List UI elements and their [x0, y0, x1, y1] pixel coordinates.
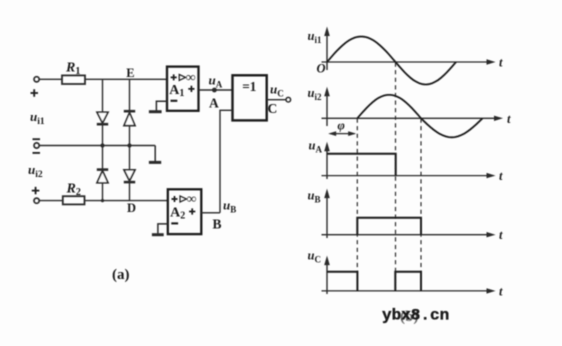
wire terminal to R1	[39, 78, 62, 80]
ui2 sine wave	[357, 95, 482, 137]
junction dot bottom rail	[101, 199, 104, 202]
dashed guide line at t3 (ui2 zero-fall)	[420, 119, 422, 292]
svg-text:uB: uB	[308, 189, 321, 205]
uA axis vertical	[324, 142, 330, 179]
label C	[268, 101, 278, 116]
ground stem from middle wire	[154, 146, 156, 162]
uB axis horizontal	[322, 232, 496, 237]
svg-text:E: E	[126, 66, 134, 80]
label ui1	[30, 109, 45, 127]
svg-text:O: O	[317, 61, 326, 75]
label uB	[308, 189, 321, 205]
label ui2	[308, 86, 322, 102]
svg-text:B: B	[213, 217, 222, 232]
wire branch 1 upper (x=102.5)	[102, 79, 104, 145]
node A dot	[212, 88, 217, 93]
svg-text:∞: ∞	[186, 69, 196, 84]
op-amp A2 internals	[170, 191, 197, 224]
uB axis vertical	[324, 189, 330, 238]
svg-text:A2: A2	[170, 205, 185, 221]
label B	[213, 217, 222, 232]
label t row1	[499, 56, 503, 70]
caption (b) faint under watermark	[400, 309, 418, 325]
wire B riser to XOR second input	[220, 110, 233, 213]
svg-text:=1: =1	[242, 79, 256, 94]
minus sign above middle terminal	[33, 138, 41, 140]
plus sign lower input	[32, 187, 40, 194]
ground wire from A1 minus input	[156, 101, 167, 110]
label O origin	[317, 61, 326, 75]
label ui1	[308, 29, 322, 45]
ui1 axis vertical	[324, 27, 330, 71]
svg-text:R1: R1	[65, 61, 80, 78]
resistor R1	[62, 75, 85, 84]
svg-text:t: t	[499, 284, 503, 298]
diode D4 (anode top, points down)	[124, 170, 135, 182]
wire terminal to R2	[39, 200, 63, 202]
svg-text:φ: φ	[338, 119, 345, 133]
diode D3 (points up, cathode top)	[97, 170, 108, 183]
svg-text:C: C	[268, 101, 278, 116]
label uB	[223, 198, 236, 215]
ground bar (A1)	[149, 110, 162, 113]
svg-text:uC: uC	[270, 82, 284, 99]
ui2 axis horizontal	[322, 116, 504, 121]
wire branch 2 lower	[129, 146, 131, 201]
XOR =1 label	[242, 79, 256, 94]
minus sign below middle terminal	[33, 152, 41, 154]
svg-text:R2: R2	[66, 182, 81, 199]
op-amp A1 box	[167, 67, 199, 111]
wire branch 2 upper (x=129.5)	[129, 79, 131, 145]
uB square wave	[357, 218, 421, 235]
svg-text:ui2: ui2	[28, 162, 43, 180]
svg-text:ui1: ui1	[30, 109, 45, 127]
uC pulse 1	[327, 272, 357, 291]
svg-text:uA: uA	[309, 139, 323, 155]
dashed guide line at t1 (ui2 zero-rise)	[356, 119, 358, 292]
uC pulse 2	[395, 272, 421, 291]
ui2 axis vertical	[324, 87, 330, 126]
middle wire	[39, 145, 155, 147]
terminal uC	[286, 97, 291, 102]
terminal common (middle)	[34, 143, 39, 148]
svg-text:(a): (a)	[112, 267, 130, 283]
uA axis horizontal	[322, 173, 496, 178]
uA square wave	[327, 154, 396, 176]
svg-text:∞: ∞	[187, 191, 197, 206]
svg-text:t: t	[499, 228, 503, 242]
terminal ui2	[34, 198, 39, 203]
wire A2 output	[201, 212, 220, 214]
watermark ybx8.cn	[382, 307, 449, 325]
label phi	[338, 119, 345, 133]
caption (a)	[112, 267, 130, 283]
ground wire from A2 minus input	[158, 224, 168, 234]
junction dot mid-left	[100, 143, 104, 147]
svg-text:D: D	[127, 201, 136, 215]
label R1	[65, 61, 80, 78]
svg-text:t: t	[499, 56, 503, 70]
resistor R2	[63, 196, 85, 204]
svg-text:uA: uA	[209, 73, 223, 90]
phase phi arrow	[328, 131, 356, 136]
wire A1 output to XOR	[199, 89, 233, 91]
label t row5	[499, 284, 503, 298]
svg-text:ui1: ui1	[308, 29, 322, 45]
svg-text:ui2: ui2	[308, 86, 322, 102]
ground bar (A2)	[152, 233, 164, 236]
svg-text:t: t	[507, 112, 511, 126]
diode D1 (anode top, points down)	[97, 112, 108, 124]
terminal ui1 +	[34, 77, 39, 82]
label uA	[309, 139, 323, 155]
label t row2	[507, 112, 511, 126]
ground bar (middle)	[149, 161, 161, 164]
ui1 axis horizontal	[322, 59, 496, 64]
diode D2 (points up, cathode top)	[124, 111, 135, 125]
label t row4	[499, 228, 503, 242]
node E label	[126, 66, 134, 80]
label uA	[209, 73, 223, 90]
uC axis horizontal	[322, 288, 496, 293]
svg-text:uB: uB	[223, 198, 236, 215]
op-amp A2 box	[168, 189, 202, 234]
svg-text:uC: uC	[308, 249, 321, 265]
label A	[209, 96, 219, 111]
svg-text:A: A	[209, 96, 219, 111]
op-amp A1 internals	[169, 69, 196, 101]
bottom rail R2 to A2	[85, 200, 168, 202]
label uC	[270, 82, 284, 99]
dashed guide line at t2 (ui1 zero-fall)	[395, 63, 397, 292]
node D label	[127, 201, 136, 215]
wire R1 to A1 (top rail)	[85, 78, 167, 80]
label t row3	[499, 169, 503, 183]
label uC	[308, 249, 321, 265]
ui1 sine wave	[327, 37, 456, 85]
junction dot mid-right	[127, 143, 131, 147]
wire XOR output	[267, 99, 286, 101]
svg-text:ybx8.cn: ybx8.cn	[382, 307, 449, 325]
uC axis vertical	[324, 256, 330, 294]
wire branch 1 lower	[102, 146, 104, 201]
svg-text:A1: A1	[169, 83, 184, 99]
XOR gate U1 box	[233, 75, 267, 120]
label ui2	[28, 162, 43, 180]
label R2	[66, 182, 81, 199]
svg-text:t: t	[499, 169, 503, 183]
plus sign upper input	[31, 89, 39, 96]
